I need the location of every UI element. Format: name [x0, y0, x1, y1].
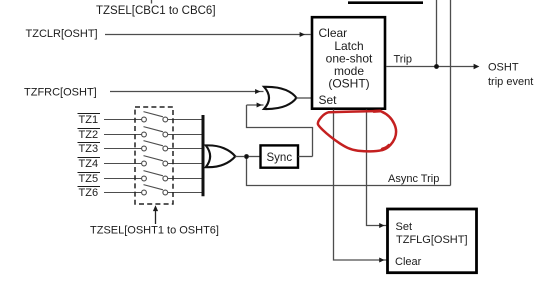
svg-text:TZSEL[OSHT1 to OSHT6]: TZSEL[OSHT1 to OSHT6] — [90, 224, 219, 236]
svg-text:Sync: Sync — [267, 152, 293, 164]
svg-text:TZFLG[OSHT]: TZFLG[OSHT] — [396, 234, 468, 246]
svg-text:TZ2: TZ2 — [79, 129, 99, 141]
svg-text:Set: Set — [396, 221, 413, 233]
svg-text:trip event: trip event — [488, 76, 533, 88]
svg-text:TZ6: TZ6 — [79, 187, 99, 199]
svg-text:Async Trip: Async Trip — [388, 173, 439, 185]
svg-text:TZCLR[OSHT]: TZCLR[OSHT] — [26, 28, 98, 40]
svg-text:Trip: Trip — [394, 54, 413, 66]
svg-text:TZFRC[OSHT]: TZFRC[OSHT] — [24, 87, 97, 99]
svg-text:TZ5: TZ5 — [79, 173, 99, 185]
svg-text:TZ3: TZ3 — [79, 143, 99, 155]
svg-text:TZ1: TZ1 — [79, 114, 99, 126]
svg-text:Set: Set — [319, 93, 338, 107]
svg-text:TZSEL[CBC1 to CBC6]: TZSEL[CBC1 to CBC6] — [96, 5, 216, 17]
svg-text:Clear: Clear — [319, 26, 348, 40]
svg-text:Clear: Clear — [395, 256, 422, 268]
svg-text:OSHT: OSHT — [488, 62, 519, 74]
svg-text:(OSHT): (OSHT) — [328, 77, 369, 91]
svg-text:TZ4: TZ4 — [79, 158, 99, 170]
